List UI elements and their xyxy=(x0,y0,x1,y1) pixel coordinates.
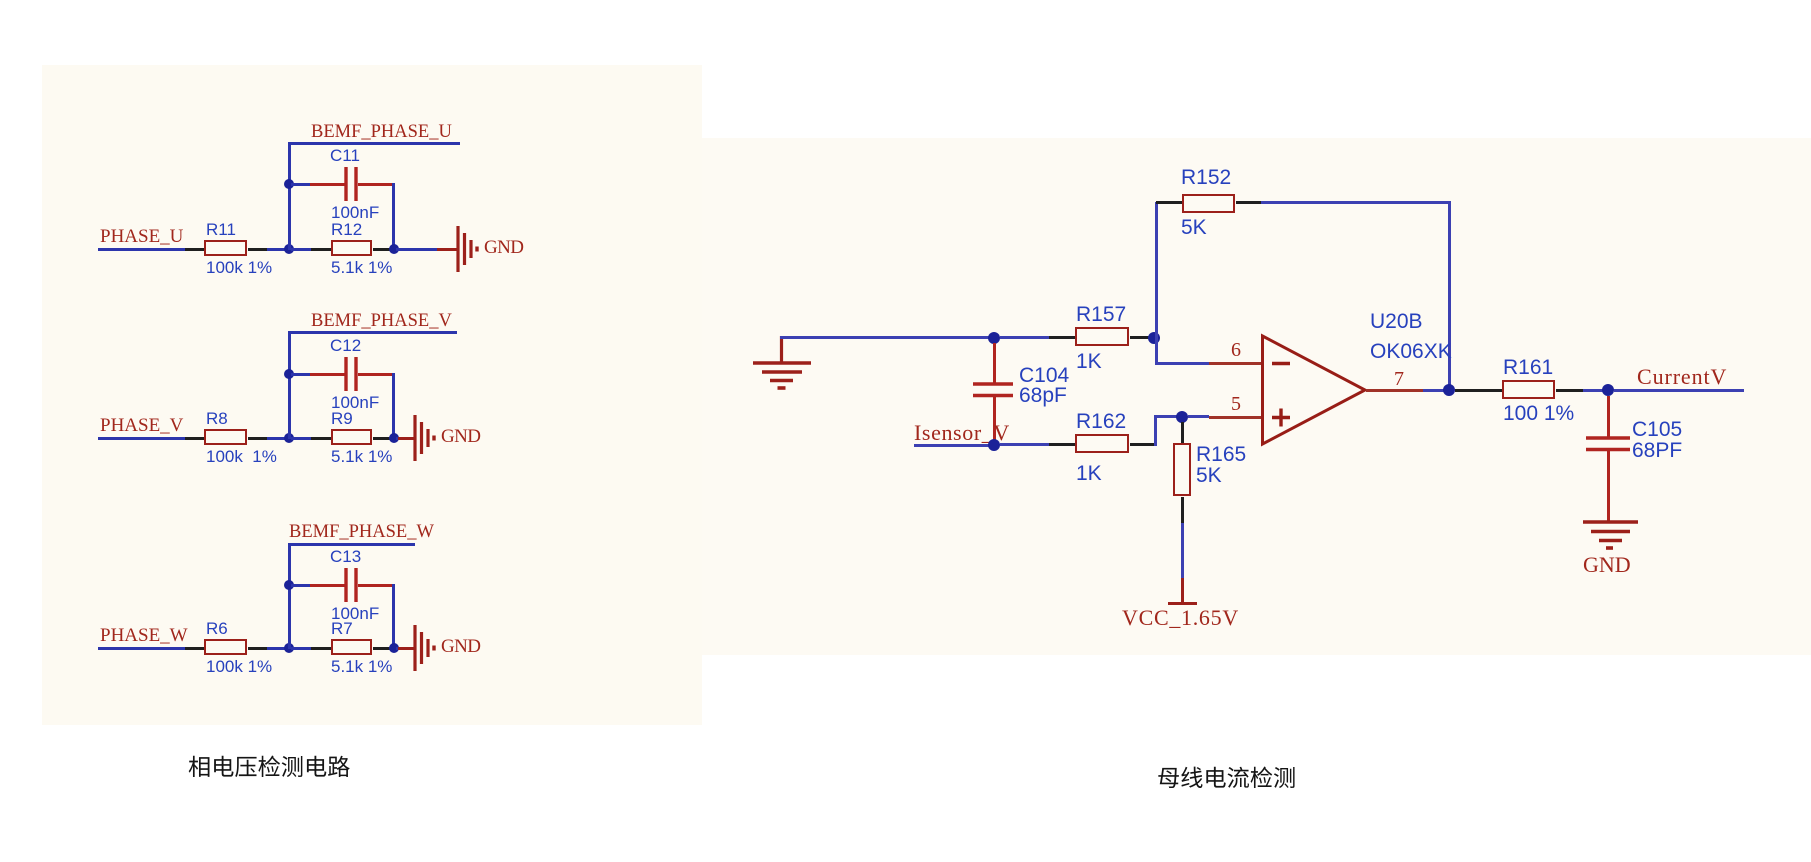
wire node to ground row V xyxy=(396,437,398,440)
wire R6 to node xyxy=(267,647,289,650)
left schematic panel background xyxy=(42,65,702,725)
pin wire right of R8 xyxy=(248,437,267,440)
ground lead row U xyxy=(437,248,458,251)
wire R161 to node CurrentV xyxy=(1583,389,1608,392)
label R152 xyxy=(1181,167,1231,188)
capacitor C105 xyxy=(1586,436,1630,452)
capacitor C11 xyxy=(344,167,360,201)
label R161 xyxy=(1503,357,1553,378)
value 100nF of C13 xyxy=(331,605,379,622)
resistor R161 xyxy=(1502,380,1555,399)
value 100k 1% of R6 xyxy=(206,658,272,675)
power port VCC_1.65V bar xyxy=(1168,602,1197,605)
label C105 xyxy=(1632,419,1682,440)
op-amp U20B triangle xyxy=(1261,334,1371,448)
net label CurrentV xyxy=(1637,366,1727,388)
pin number 5 xyxy=(1231,394,1241,414)
wire node to R12 xyxy=(291,248,311,251)
vertical wire R162 up-step xyxy=(1154,416,1157,446)
value 1K of R162 xyxy=(1076,463,1102,484)
vertical wire cap branch down row U xyxy=(392,183,395,250)
lead C104 bottom plate to node xyxy=(993,397,996,441)
vertical wire node to pin6 level xyxy=(1155,339,1158,363)
label GND row W xyxy=(441,637,480,656)
net label PHASE_U xyxy=(100,227,183,246)
junction cap node row U xyxy=(284,179,294,189)
net label BEMF_PHASE_U xyxy=(311,123,452,142)
label C104 xyxy=(1019,365,1069,386)
resistor R157 xyxy=(1075,327,1129,346)
right schematic panel background xyxy=(702,138,1811,655)
wire PHASE_W to R6 xyxy=(98,647,185,650)
capacitor C13 xyxy=(344,568,360,602)
junction node C104 top xyxy=(988,332,1000,344)
junction node non-inverting xyxy=(1176,411,1188,423)
value 68pF of C104 xyxy=(1019,385,1067,406)
pin wire right of R11 xyxy=(248,248,267,251)
ground lead row W xyxy=(398,647,415,650)
wire Isensor_V to node xyxy=(914,444,994,447)
value 5K of R152 xyxy=(1181,217,1207,238)
value 68PF of C105 xyxy=(1632,440,1682,461)
junction node Isensor_V xyxy=(988,439,1000,451)
net label BEMF_PHASE_W xyxy=(289,523,434,542)
pin wire left of R9 xyxy=(311,437,331,440)
value 100nF of C11 xyxy=(331,204,379,221)
wire to op-amp pin 6 xyxy=(1155,362,1210,365)
pin wire right of R7 xyxy=(373,647,390,650)
wire node to ground row W xyxy=(396,647,398,650)
value 100k 1% of R11 xyxy=(206,259,272,276)
wire C13 right plate to corner xyxy=(358,584,395,587)
resistor R12 xyxy=(331,240,372,256)
pin wire top of R165 xyxy=(1181,422,1184,443)
pin wire right of R9 xyxy=(373,437,390,440)
value 5K of R165 xyxy=(1196,465,1222,486)
wire to C13 left plate xyxy=(310,584,346,587)
junction output node xyxy=(1443,384,1455,396)
designator U20B xyxy=(1370,311,1423,332)
value 5.1k 1% of R7 xyxy=(331,658,392,675)
junction node right row V xyxy=(389,433,399,443)
wire PHASE_U to R11 xyxy=(98,248,185,251)
wire node to R157 xyxy=(1000,336,1049,339)
wire C11 right plate to corner xyxy=(358,183,395,186)
output lead of op-amp pin 7 xyxy=(1366,389,1423,392)
junction node inverting xyxy=(1148,332,1160,344)
lead node to C105 top plate xyxy=(1607,396,1610,437)
pin wire left of R11 xyxy=(185,248,204,251)
lead node to C104 top plate xyxy=(993,343,996,384)
junction cap node row W xyxy=(284,580,294,590)
resistor R11 xyxy=(204,240,247,256)
wire node to C12 (blue) xyxy=(291,373,310,376)
pin 5 lead of op-amp xyxy=(1209,416,1264,419)
label R8 xyxy=(206,410,228,427)
label R157 xyxy=(1076,304,1126,325)
ground lead row V xyxy=(398,437,415,440)
caption 相电压检测电路 (phase voltage detection circuit) xyxy=(188,752,354,782)
pin wire left of R12 xyxy=(311,248,331,251)
resistor R8 xyxy=(204,429,247,445)
vertical wire BEMF_PHASE_U branch xyxy=(288,142,291,250)
wire node to CurrentV label xyxy=(1614,389,1744,392)
wire R152 to feedback corner xyxy=(1261,201,1451,204)
wire net BEMF_PHASE_W xyxy=(288,543,415,546)
junction node right row U xyxy=(389,244,399,254)
wire to C12 left plate xyxy=(310,373,346,376)
wire R11 to node xyxy=(267,248,289,251)
resistor R152 xyxy=(1182,194,1235,213)
label R165 xyxy=(1196,444,1246,465)
wire C12 right plate to corner xyxy=(358,373,395,376)
pin wire left of R161 xyxy=(1455,389,1502,392)
lead to VCC bar xyxy=(1181,578,1184,603)
vertical wire cap branch down row V xyxy=(392,373,395,439)
ground symbol left of right circuit xyxy=(752,336,812,391)
pin wire right of R6 xyxy=(248,647,267,650)
value 100k 1% of R8 xyxy=(206,448,277,465)
pin wire left of R162 xyxy=(1049,443,1075,446)
value 100 1% of R161 xyxy=(1503,403,1574,424)
lead C105 bottom plate to ground xyxy=(1607,450,1610,522)
part number OK06XK xyxy=(1370,341,1452,362)
label R162 xyxy=(1076,411,1126,432)
wire net BEMF_PHASE_V xyxy=(288,331,457,334)
junction cap node row V xyxy=(284,369,294,379)
label GND right circuit xyxy=(1583,554,1631,576)
vertical wire BEMF_PHASE_W branch xyxy=(288,543,291,649)
pin wire right of R161 xyxy=(1556,389,1583,392)
pin number 6 xyxy=(1231,340,1241,360)
pin wire left of R8 xyxy=(185,437,204,440)
wire step to node R165 xyxy=(1154,415,1182,418)
vertical wire BEMF_PHASE_V branch xyxy=(288,331,291,439)
wire PHASE_V to R8 xyxy=(98,437,185,440)
label C11 xyxy=(330,147,360,164)
resistor R9 xyxy=(331,429,372,445)
wire ground to node C104 xyxy=(780,336,995,339)
label R9 xyxy=(331,410,353,427)
junction node CurrentV xyxy=(1602,384,1614,396)
vertical wire cap branch down row W xyxy=(392,584,395,649)
label C13 xyxy=(330,548,361,565)
capacitor C104 xyxy=(973,382,1013,398)
label GND row U xyxy=(484,238,523,257)
pin wire bottom of R165 xyxy=(1181,497,1184,523)
value 5.1k 1% of R12 xyxy=(331,259,392,276)
wire node to pin 5 xyxy=(1188,415,1209,418)
pin 6 lead of op-amp xyxy=(1209,362,1264,365)
pin wire right of R152 xyxy=(1236,201,1261,204)
label C12 xyxy=(330,337,361,354)
resistor R6 xyxy=(204,639,247,655)
resistor R162 xyxy=(1075,434,1129,453)
wire node to C11 (blue) xyxy=(291,183,310,186)
label R12 xyxy=(331,221,362,238)
label GND row V xyxy=(441,427,480,446)
junction node left row V xyxy=(284,433,294,443)
net label Isensor_V xyxy=(914,422,1010,444)
pin wire left of R152 xyxy=(1156,201,1182,204)
ground GND row V xyxy=(413,415,437,461)
value 5.1k 1% of R9 xyxy=(331,448,392,465)
label R7 xyxy=(331,620,353,637)
label R6 xyxy=(206,620,228,637)
junction node right row W xyxy=(389,643,399,653)
resistor R7 xyxy=(331,639,372,655)
wire net BEMF_PHASE_U xyxy=(288,142,460,145)
capacitor C12 xyxy=(344,357,360,391)
caption 母线电流检测 (bus current detection) xyxy=(1157,763,1300,793)
ground GND row W xyxy=(413,625,437,671)
wire R8 to node xyxy=(267,437,289,440)
ground GND below C105 xyxy=(1583,520,1641,550)
vertical wire node to R152 xyxy=(1155,202,1158,339)
wire to C11 left plate xyxy=(310,183,346,186)
wire node to C13 (blue) xyxy=(291,584,310,587)
resistor R165 xyxy=(1173,443,1191,496)
vertical feedback wire to output node xyxy=(1448,201,1451,389)
pin wire right of R162 xyxy=(1130,443,1154,446)
net label PHASE_W xyxy=(100,626,188,645)
label R11 xyxy=(206,221,236,238)
net label PHASE_V xyxy=(100,416,183,435)
net label BEMF_PHASE_V xyxy=(311,312,452,331)
wire node to R9 xyxy=(291,437,311,440)
pin wire left of R7 xyxy=(311,647,331,650)
junction node left row W xyxy=(284,643,294,653)
pin wire right of R157 xyxy=(1130,336,1150,339)
ground GND row U xyxy=(456,226,480,272)
pin number 7 xyxy=(1394,369,1404,389)
wire node to R7 xyxy=(291,647,311,650)
junction node left row U xyxy=(284,244,294,254)
pin wire left of R157 xyxy=(1049,336,1075,339)
value 1K of R157 xyxy=(1076,351,1102,372)
wire node to ground row U xyxy=(396,248,437,251)
wire R165 to VCC xyxy=(1181,523,1184,578)
value 100nF of C12 xyxy=(331,394,379,411)
wire node to R162 xyxy=(1000,443,1049,446)
power net label VCC_1.65V xyxy=(1122,607,1239,629)
pin wire right of R12 xyxy=(373,248,390,251)
wire op-amp output to node xyxy=(1423,389,1449,392)
pin wire left of R6 xyxy=(185,647,204,650)
